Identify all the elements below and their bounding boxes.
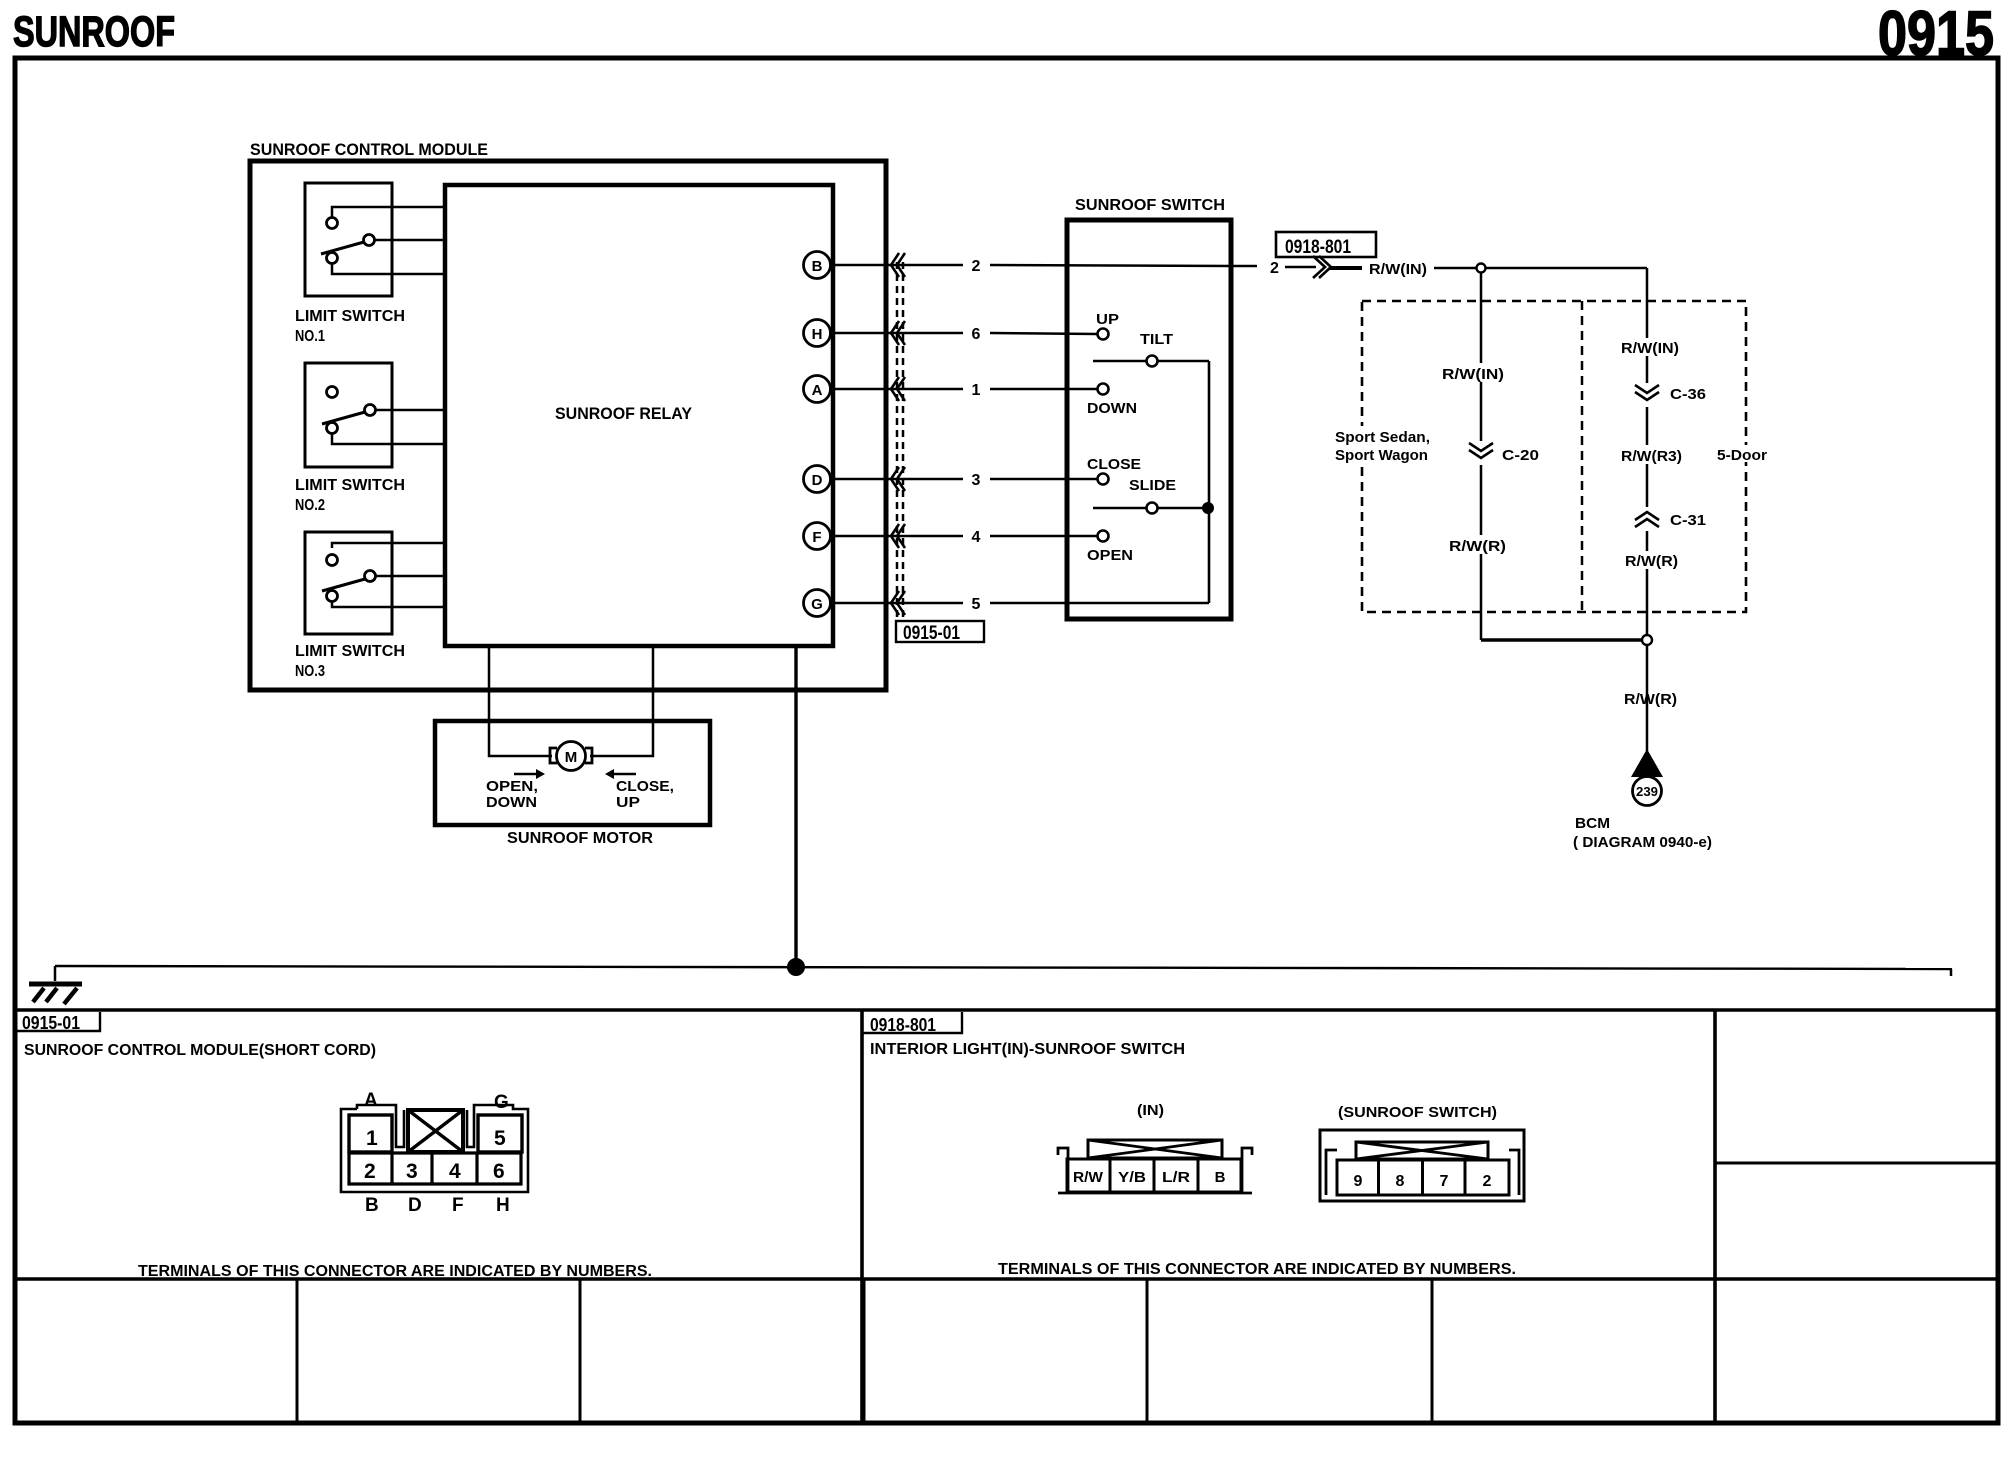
wire pin2 to R/W(IN) bbox=[1233, 265, 1257, 268]
left end tab bbox=[1058, 1148, 1068, 1193]
svg-text:LIMIT SWITCH: LIMIT SWITCH bbox=[295, 308, 405, 325]
grid divider 3 bbox=[863, 1279, 866, 1423]
chevron at wire B bbox=[891, 253, 905, 277]
SLIDE contact line bbox=[1093, 507, 1146, 510]
BCM arrow triangle bbox=[1631, 749, 1663, 777]
svg-text:5: 5 bbox=[972, 596, 981, 613]
label 5-Door bbox=[1714, 445, 1770, 462]
BCM circle 239 bbox=[1633, 777, 1662, 806]
svg-text:UP: UP bbox=[1096, 311, 1119, 328]
right end tab bbox=[1242, 1148, 1252, 1193]
svg-text:8: 8 bbox=[1396, 1173, 1405, 1190]
svg-text:F: F bbox=[812, 529, 821, 546]
TILT contact circle bbox=[1147, 356, 1158, 367]
wire sedan branch elbow to node bbox=[1481, 638, 1641, 641]
svg-text:SUNROOF: SUNROOF bbox=[13, 8, 175, 56]
wire H to switch (pin 6) bbox=[830, 332, 963, 335]
terminal cell 5 bbox=[478, 1115, 522, 1152]
limit switch NO.1 top contact bbox=[327, 218, 338, 229]
ground bus right end tick bbox=[1950, 969, 1953, 976]
svg-text:L/R: L/R bbox=[1162, 1169, 1190, 1186]
label R/W(R) 5-door bbox=[1622, 551, 1680, 569]
limit switch NO.2 common wire to relay bbox=[376, 409, 443, 412]
svg-text:BCM: BCM bbox=[1575, 815, 1610, 832]
bottom section separator line bbox=[15, 1008, 1998, 1012]
svg-text:2: 2 bbox=[1270, 260, 1279, 277]
label R/W(R) sedan bbox=[1447, 535, 1508, 554]
svg-text:R/W(IN): R/W(IN) bbox=[1369, 261, 1427, 278]
bottom grid row top line bbox=[15, 1277, 1998, 1281]
svg-text:Y/B: Y/B bbox=[1118, 1169, 1146, 1186]
CLOSE contact bbox=[1098, 474, 1109, 485]
wire A to switch (pin 1) bbox=[830, 388, 963, 391]
arrow close/up (left) bbox=[613, 773, 636, 776]
svg-text:NO.3: NO.3 bbox=[295, 663, 325, 680]
svg-text:4: 4 bbox=[449, 1160, 461, 1183]
svg-text:CLOSE: CLOSE bbox=[1087, 456, 1141, 473]
svg-text:INTERIOR LIGHT(IN)-SUNROOF SWI: INTERIOR LIGHT(IN)-SUNROOF SWITCH bbox=[870, 1041, 1185, 1058]
IN connector drawing bbox=[1058, 1140, 1252, 1193]
UP contact bbox=[1098, 329, 1109, 340]
node circle bbox=[1477, 264, 1486, 273]
svg-text:(IN): (IN) bbox=[1137, 1102, 1164, 1119]
limit switch NO.2 top contact (open) bbox=[327, 387, 338, 398]
limit switch NO.2 moving contact bbox=[365, 405, 376, 416]
label R/W(IN) sedan bbox=[1440, 363, 1506, 382]
right panel horizontal divider bbox=[1715, 1162, 1998, 1165]
TILT contact line bbox=[1093, 360, 1146, 363]
limit switch NO.1 box bbox=[305, 183, 392, 296]
svg-text:0918-801: 0918-801 bbox=[1285, 237, 1351, 258]
limit switch NO.3 box bbox=[305, 532, 392, 634]
limit switch NO.1 lever bbox=[321, 242, 364, 254]
svg-text:SUNROOF CONTROL MODULE(SHORT C: SUNROOF CONTROL MODULE(SHORT CORD) bbox=[24, 1042, 376, 1059]
svg-text:OPEN: OPEN bbox=[1087, 547, 1133, 564]
grid divider 1 bbox=[296, 1279, 299, 1423]
right inner tab bbox=[1509, 1150, 1519, 1195]
svg-text:D: D bbox=[408, 1195, 422, 1216]
svg-text:NO.2: NO.2 bbox=[295, 497, 325, 514]
svg-text:6: 6 bbox=[972, 326, 981, 343]
svg-text:G: G bbox=[811, 596, 823, 613]
0915-01 tag box bbox=[896, 621, 984, 642]
sunroof control module box bbox=[250, 161, 886, 690]
svg-text:0918-801: 0918-801 bbox=[870, 1015, 936, 1035]
wire to ground symbol bbox=[54, 966, 57, 981]
limit switch NO.3 lever bbox=[322, 579, 365, 591]
sunroof motor box bbox=[435, 721, 710, 825]
limit switch NO.1 wire (bottom contact to relay) bbox=[332, 263, 443, 274]
limit switch NO.3 wire (top contact to relay) bbox=[332, 543, 443, 548]
svg-text:3: 3 bbox=[972, 472, 981, 489]
svg-text:A: A bbox=[812, 382, 823, 399]
ground bus wire bbox=[55, 966, 1952, 969]
svg-text:TERMINALS OF THIS CONNECTOR AR: TERMINALS OF THIS CONNECTOR ARE INDICATE… bbox=[138, 1263, 652, 1280]
svg-text:1: 1 bbox=[972, 382, 981, 399]
wire D to switch (pin 3) bbox=[830, 478, 963, 481]
svg-text:LIMIT SWITCH: LIMIT SWITCH bbox=[295, 643, 405, 660]
svg-text:B: B bbox=[365, 1195, 379, 1216]
limit switch NO.3 common wire to relay bbox=[376, 575, 443, 578]
SLIDE junction dot bbox=[1202, 502, 1214, 514]
svg-text:SUNROOF MOTOR: SUNROOF MOTOR bbox=[507, 830, 653, 847]
terminal F circle bbox=[804, 523, 831, 550]
limit switch NO.3 moving contact bbox=[365, 571, 376, 582]
connector C-36 chevron (down) bbox=[1633, 383, 1661, 407]
svg-text:6: 6 bbox=[493, 1160, 505, 1183]
bottom rail bbox=[1058, 1192, 1252, 1195]
terminal H circle bbox=[804, 320, 831, 347]
svg-text:G: G bbox=[494, 1092, 509, 1113]
SLIDE contact circle bbox=[1147, 503, 1158, 514]
chevron at wire H bbox=[891, 321, 905, 345]
chevron right (harness 0918-801) bbox=[1313, 256, 1331, 278]
dashed option box divider bbox=[1581, 301, 1584, 612]
svg-text:4: 4 bbox=[972, 529, 981, 546]
limit switch NO.3 bottom contact bbox=[327, 591, 338, 602]
svg-text:R/W(R): R/W(R) bbox=[1449, 538, 1506, 555]
svg-text:LIMIT SWITCH: LIMIT SWITCH bbox=[295, 477, 405, 494]
svg-text:OPEN,: OPEN, bbox=[486, 778, 538, 795]
svg-text:Sport Wagon: Sport Wagon bbox=[1335, 447, 1428, 464]
motor right bracket bbox=[585, 748, 592, 763]
wire sedan branch vertical bbox=[1480, 272, 1483, 640]
outer box bbox=[1320, 1130, 1524, 1201]
limit switch NO.2 lever bbox=[322, 412, 365, 424]
svg-text:DOWN: DOWN bbox=[1087, 400, 1137, 417]
svg-text:F: F bbox=[452, 1195, 464, 1216]
svg-text:Sport Sedan,: Sport Sedan, bbox=[1335, 429, 1430, 446]
0918-801 panel tag bbox=[862, 1012, 962, 1033]
wire to node bbox=[1434, 267, 1477, 270]
wire to BCM bbox=[1646, 645, 1649, 751]
wire G to switch (pin 5) bbox=[830, 602, 963, 605]
label R/W(R3) 5-door bbox=[1619, 445, 1684, 464]
svg-text:9: 9 bbox=[1354, 1173, 1363, 1190]
terminal G circle bbox=[804, 590, 831, 617]
grid divider 2 bbox=[579, 1279, 582, 1423]
limit switch NO.1 common wire to relay bbox=[375, 239, 443, 242]
svg-text:R/W(IN): R/W(IN) bbox=[1621, 340, 1679, 357]
svg-text:H: H bbox=[812, 326, 823, 343]
DOWN contact bbox=[1098, 384, 1109, 395]
svg-text:C-36: C-36 bbox=[1670, 386, 1706, 403]
svg-text:2: 2 bbox=[972, 258, 981, 275]
right panel divider bbox=[1713, 1010, 1717, 1423]
grid divider 4 bbox=[1146, 1279, 1149, 1423]
terminal B circle bbox=[804, 252, 831, 279]
svg-text:CLOSE,: CLOSE, bbox=[616, 778, 674, 795]
svg-text:TERMINALS OF THIS CONNECTOR AR: TERMINALS OF THIS CONNECTOR ARE INDICATE… bbox=[998, 1261, 1516, 1278]
svg-text:R/W(R3): R/W(R3) bbox=[1621, 448, 1682, 465]
svg-text:5-Door: 5-Door bbox=[1717, 447, 1767, 464]
module connector drawing bbox=[341, 1090, 528, 1216]
chevron at wire A bbox=[891, 377, 905, 401]
SUNROOF SWITCH connector drawing bbox=[1320, 1130, 1524, 1201]
svg-text:C-20: C-20 bbox=[1502, 447, 1539, 464]
limit switch NO.3 wire (bottom contact to relay) bbox=[332, 601, 443, 607]
ground junction dot bbox=[787, 958, 805, 976]
lock X rect bbox=[1356, 1142, 1488, 1159]
svg-text:R/W(R): R/W(R) bbox=[1625, 553, 1678, 570]
motor M circle bbox=[557, 742, 586, 771]
terminal cells bbox=[1067, 1159, 1241, 1192]
svg-text:3: 3 bbox=[406, 1160, 418, 1183]
sunroof relay box bbox=[445, 185, 833, 646]
svg-text:NO.1: NO.1 bbox=[295, 328, 325, 345]
switch common vertical wire bbox=[1208, 361, 1211, 603]
svg-text:239: 239 bbox=[1636, 785, 1658, 799]
chevron at wire G bbox=[891, 591, 905, 615]
limit switch NO.1 bottom contact bbox=[327, 253, 338, 264]
connector C-20 chevron (down) bbox=[1467, 441, 1495, 465]
svg-text:A: A bbox=[364, 1090, 378, 1111]
svg-text:1: 1 bbox=[366, 1127, 378, 1150]
svg-text:2: 2 bbox=[364, 1160, 376, 1183]
svg-text:SUNROOF RELAY: SUNROOF RELAY bbox=[555, 404, 693, 423]
svg-text:B: B bbox=[1215, 1169, 1226, 1186]
wire B to switch (pin 2) bbox=[830, 264, 963, 267]
svg-text:5: 5 bbox=[494, 1127, 506, 1150]
dashed option box Sport Sedan/Wagon bbox=[1362, 301, 1746, 612]
wire relay to motor right bbox=[590, 648, 653, 756]
svg-text:0915-01: 0915-01 bbox=[903, 623, 960, 644]
svg-text:(SUNROOF SWITCH): (SUNROOF SWITCH) bbox=[1338, 1104, 1497, 1121]
svg-text:R/W(IN): R/W(IN) bbox=[1442, 366, 1504, 383]
terminal A circle bbox=[804, 376, 831, 403]
svg-text:TILT: TILT bbox=[1140, 331, 1173, 348]
svg-text:SLIDE: SLIDE bbox=[1129, 477, 1176, 494]
svg-text:R/W: R/W bbox=[1073, 1169, 1104, 1186]
middle panel left border bbox=[860, 1010, 864, 1423]
svg-text:M: M bbox=[565, 749, 578, 766]
lock X box bbox=[408, 1110, 463, 1152]
motor left bracket bbox=[550, 748, 557, 763]
terminal cells bbox=[1337, 1160, 1509, 1195]
terminal cell 1 bbox=[349, 1115, 392, 1152]
arrow open/down (right) bbox=[514, 773, 537, 776]
left inner tab bbox=[1326, 1150, 1337, 1195]
lock X rect bbox=[1088, 1140, 1222, 1158]
0915-01 panel tag bbox=[16, 1012, 100, 1031]
svg-text:7: 7 bbox=[1440, 1173, 1449, 1190]
svg-text:B: B bbox=[812, 258, 823, 275]
limit switch NO.2 box bbox=[305, 363, 392, 467]
limit switch NO.2 wire (bottom contact to relay) bbox=[332, 433, 443, 444]
OPEN contact bbox=[1098, 531, 1109, 542]
svg-text:0915-01: 0915-01 bbox=[22, 1013, 80, 1033]
svg-text:D: D bbox=[812, 472, 823, 489]
svg-text:DOWN: DOWN bbox=[486, 794, 537, 811]
lower node circle bbox=[1642, 635, 1652, 645]
connector boundary dashed line bbox=[896, 262, 899, 618]
sunroof switch box bbox=[1067, 220, 1231, 619]
limit switch NO.1 moving contact bbox=[364, 235, 375, 246]
connector C-31 chevron (up) bbox=[1633, 507, 1661, 531]
label R/W(IN) 5-door bbox=[1619, 338, 1679, 356]
ground symbol bbox=[29, 984, 82, 1004]
limit switch NO.1 wire (top contact to relay) bbox=[332, 207, 443, 218]
terminal row 2 cells bbox=[349, 1153, 521, 1184]
chevron at wire F bbox=[891, 524, 905, 548]
wire relay to ground bus bbox=[794, 648, 797, 967]
svg-text:SUNROOF CONTROL MODULE: SUNROOF CONTROL MODULE bbox=[250, 140, 488, 159]
limit switch NO.2 bottom contact bbox=[327, 423, 338, 434]
connector outer housing bbox=[341, 1105, 528, 1192]
grid divider 5 bbox=[1431, 1279, 1434, 1423]
svg-text:C-31: C-31 bbox=[1670, 512, 1706, 529]
chevron at wire D bbox=[891, 467, 905, 491]
label Sport Sedan, Sport Wagon bbox=[1332, 426, 1433, 464]
svg-text:SUNROOF SWITCH: SUNROOF SWITCH bbox=[1075, 197, 1225, 214]
svg-text:UP: UP bbox=[616, 794, 640, 811]
wire F to switch (pin 4) bbox=[830, 535, 963, 538]
svg-text:2: 2 bbox=[1483, 1173, 1492, 1190]
0918-801 tag box bbox=[1276, 232, 1376, 257]
terminal D circle bbox=[804, 466, 831, 493]
wire 5-door branch vertical bbox=[1646, 268, 1649, 634]
limit switch NO.3 top contact bbox=[327, 555, 338, 566]
wire relay to motor left bbox=[489, 648, 552, 756]
svg-text:H: H bbox=[496, 1195, 510, 1216]
svg-text:( DIAGRAM 0940-e): ( DIAGRAM 0940-e) bbox=[1573, 834, 1712, 851]
wire node to 5-door branch bbox=[1486, 267, 1647, 270]
svg-text:R/W(R): R/W(R) bbox=[1624, 691, 1677, 708]
